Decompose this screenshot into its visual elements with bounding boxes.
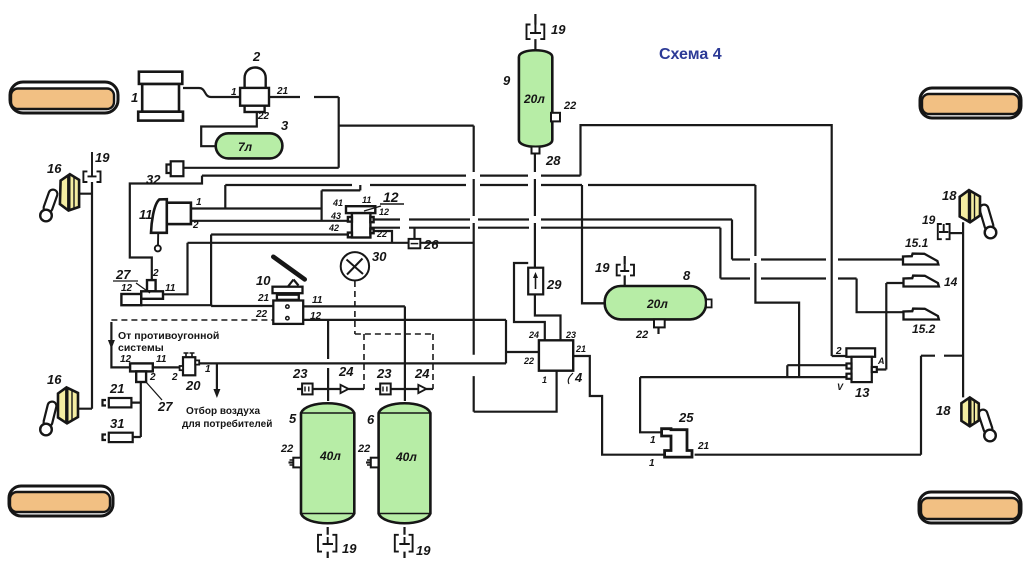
- svg-text:28: 28: [545, 153, 561, 168]
- svg-text:22: 22: [376, 229, 387, 239]
- svg-text:Отбор воздуха: Отбор воздуха: [186, 405, 261, 417]
- wire supply main: left drop to parking valve 27: [130, 176, 202, 280]
- wire valve 10 port 11 to tank 6: [303, 306, 405, 401]
- svg-text:30: 30: [372, 249, 387, 264]
- svg-text:22: 22: [257, 111, 270, 122]
- filter 23 (tank 5): [302, 384, 313, 395]
- tire bottom-left: [9, 486, 113, 516]
- svg-text:22: 22: [255, 309, 268, 320]
- svg-text:11: 11: [165, 283, 176, 294]
- svg-text:19: 19: [95, 150, 110, 165]
- svg-text:2: 2: [149, 372, 156, 383]
- svg-text:От противоугонной: От противоугонной: [118, 330, 219, 342]
- wire valve 10 port 21 to valve 12 port 42: [211, 235, 348, 307]
- svg-text:22: 22: [280, 443, 293, 455]
- wire supply main horizontal y175.6: [202, 175, 581, 177]
- coupling 21: [103, 398, 132, 407]
- wire dashed drop to check valve 24 (tank6): [432, 334, 434, 389]
- element 29: [528, 268, 543, 295]
- svg-text:22: 22: [523, 356, 534, 366]
- svg-text:24: 24: [338, 364, 354, 379]
- wire tank 5 drain stem: [327, 527, 329, 558]
- svg-text:18: 18: [942, 188, 957, 203]
- check valve 24 (tank 6): [418, 385, 426, 393]
- svg-text:42: 42: [328, 223, 339, 233]
- wire run y377.1 to valve 13 left: [640, 365, 849, 377]
- svg-text:23: 23: [565, 330, 576, 340]
- svg-text:43: 43: [330, 211, 341, 221]
- svg-text:12: 12: [379, 207, 389, 217]
- coupling 31: [103, 433, 133, 442]
- svg-text:11: 11: [312, 295, 323, 306]
- svg-text:21: 21: [697, 441, 710, 452]
- wire air takeoff arrow: [216, 363, 218, 391]
- brake chamber 16 upper: [40, 174, 79, 221]
- wire check valve row tank 6: [375, 388, 433, 390]
- svg-text:19: 19: [551, 22, 566, 37]
- wire valve 12 right port to horn 15.1: [373, 220, 903, 260]
- port 22 (tank 6): [367, 458, 379, 468]
- brake chamber 18 lower: [961, 397, 995, 441]
- drain valve 19 (tank 6): [395, 535, 413, 552]
- hand valve 10: [273, 257, 305, 324]
- svg-text:40л: 40л: [319, 449, 341, 463]
- horn 15.1: [903, 254, 938, 265]
- svg-text:1: 1: [231, 87, 237, 98]
- svg-text:19: 19: [416, 543, 431, 558]
- svg-text:19: 19: [922, 213, 936, 227]
- svg-text:Схема 4: Схема 4: [659, 46, 722, 63]
- wire dashed from indicator 30: [355, 281, 433, 334]
- wire dashed drop to check valve 24 (tank5): [363, 334, 365, 389]
- tank 3 (7L): [216, 133, 283, 158]
- svg-text:V: V: [837, 382, 844, 392]
- svg-text:25: 25: [678, 410, 694, 425]
- wire anti-theft input to valve 27: [111, 322, 130, 367]
- svg-text:7л: 7л: [238, 140, 253, 154]
- svg-text:2: 2: [152, 268, 159, 279]
- svg-text:20: 20: [185, 378, 201, 393]
- wire valve 27 stem to couplings 21 31: [131, 382, 140, 437]
- wire main vertical x473.7: [473, 126, 475, 412]
- parking valve 27 (lower, T-shape): [130, 363, 153, 382]
- svg-text:2: 2: [192, 220, 199, 231]
- wire governor 2 port 21 to main line: [269, 97, 339, 168]
- wire supply main riser and top run to valve 13: [581, 125, 847, 356]
- svg-text:29: 29: [546, 277, 562, 292]
- wire tank 6 drain stem: [403, 527, 405, 558]
- svg-text:10: 10: [256, 273, 271, 288]
- brake valve 11: [151, 199, 191, 251]
- wire tank 9 drain line 28 to element 29: [535, 153, 561, 340]
- wire element 29 left branch to valve 4 port 24: [514, 263, 545, 340]
- svg-text:системы: системы: [118, 342, 164, 354]
- wire valve 4 port 1 to main vertical: [474, 371, 557, 412]
- svg-text:23: 23: [292, 366, 308, 381]
- valve 20: [180, 353, 200, 375]
- svg-text:20л: 20л: [646, 297, 668, 311]
- wire valve 27 to valve 20: [153, 366, 181, 368]
- wire loop at valve 12 left: [322, 185, 361, 221]
- svg-text:1: 1: [131, 90, 138, 105]
- svg-text:2: 2: [252, 49, 261, 64]
- wire compressor 1 to governor 2 (with hose loop): [183, 88, 240, 97]
- svg-text:24: 24: [528, 330, 539, 340]
- wire valve 4 port 21 to regulator 25: [573, 356, 664, 455]
- svg-text:14: 14: [944, 275, 958, 289]
- compressor 1: [138, 72, 183, 121]
- horn 15.2: [904, 309, 939, 320]
- wire line y185 to node x582: [225, 184, 582, 186]
- check valve 24 (tank 5): [341, 385, 349, 393]
- gauge 26: [409, 239, 421, 248]
- svg-text:19: 19: [595, 260, 610, 275]
- filter 23 (tank 6): [380, 384, 391, 395]
- drain valve 19 (left, chamber 16): [83, 152, 100, 182]
- svg-text:12: 12: [310, 311, 322, 322]
- horn 14: [904, 276, 939, 287]
- svg-text:для потребителей: для потребителей: [182, 418, 272, 430]
- fitting 32: [167, 161, 184, 176]
- wire tank 8 fittings: [625, 256, 659, 334]
- wire valve 12 port 22 to parking valve 27 port 11: [163, 231, 474, 294]
- indicator 30: [341, 252, 369, 280]
- wire tank 5 port 22 stub: [289, 461, 294, 463]
- svg-text:40л: 40л: [395, 450, 417, 464]
- wire tank 9 top stem: [534, 14, 536, 50]
- svg-text:22: 22: [357, 443, 370, 455]
- svg-text:32: 32: [146, 172, 161, 187]
- port 22 (tank 5): [290, 458, 302, 468]
- port 22 (tank 8): [654, 319, 665, 327]
- svg-text:23: 23: [376, 366, 392, 381]
- svg-text:27: 27: [157, 399, 173, 414]
- svg-text:18: 18: [936, 403, 951, 418]
- wire check valve row tank 5: [297, 388, 364, 390]
- svg-text:11: 11: [362, 195, 371, 205]
- wire dashed anti-theft feed: [111, 319, 272, 321]
- svg-text:19: 19: [342, 541, 357, 556]
- wire horn 14 from valve 13 port A: [877, 283, 904, 370]
- svg-text:11: 11: [139, 207, 153, 222]
- regulator 25: [662, 429, 692, 457]
- wire air takeoff line from valve 20: [196, 362, 507, 364]
- svg-text:15.1: 15.1: [905, 236, 929, 250]
- tank 6 (40L): [379, 403, 431, 523]
- tank 6 line across shoulder: [379, 413, 431, 514]
- svg-text:1: 1: [205, 364, 211, 375]
- wire valve 10 port 12 to tank 5 and to valve 4: [303, 320, 539, 401]
- svg-text:4: 4: [574, 370, 583, 385]
- svg-text:13: 13: [855, 385, 870, 400]
- svg-text:16: 16: [47, 372, 62, 387]
- wire fitting 32 output: [183, 167, 338, 169]
- svg-text:27: 27: [115, 267, 131, 282]
- svg-text:15.2: 15.2: [912, 322, 936, 336]
- two-section valve 12: [346, 206, 375, 237]
- brake chamber 16 lower: [40, 387, 78, 435]
- svg-text:24: 24: [414, 366, 430, 381]
- wire valve 12 lower right port to horn 15.2: [370, 228, 904, 313]
- protection valve 4: [539, 340, 573, 370]
- arrow anti-theft: [108, 340, 115, 349]
- svg-text:5: 5: [289, 411, 297, 426]
- svg-text:41: 41: [332, 198, 343, 208]
- tire bottom-right: [919, 492, 1021, 523]
- svg-text:2: 2: [835, 346, 842, 357]
- wire tank 6 port 22 stub: [366, 461, 371, 463]
- wire regulator 25 port 21 to rear chambers 18: [695, 222, 964, 454]
- tire top-left: [10, 82, 118, 113]
- svg-text:12: 12: [121, 283, 133, 294]
- dashed control lines: [111, 281, 433, 389]
- tank 5 (40L): [301, 403, 354, 523]
- wire drop to regulator 25 top: [640, 377, 662, 432]
- wire brake valve 11 port 2 to valve 12 port 43: [191, 220, 348, 222]
- svg-text:2: 2: [171, 372, 178, 383]
- svg-text:20л: 20л: [523, 92, 545, 106]
- svg-text:21: 21: [257, 293, 270, 304]
- tank 9 (20L vertical): [519, 50, 552, 153]
- tank 5 line across shoulder: [301, 413, 354, 514]
- wire governor 2 port 22 down to tank 3: [201, 112, 257, 146]
- svg-text:11: 11: [156, 354, 167, 365]
- wire gauge 26 tap: [413, 228, 415, 239]
- tank 8 (20L horizontal): [605, 286, 712, 319]
- drain valve 19 (tank 9): [527, 25, 545, 40]
- port 22 (tank 9): [551, 113, 560, 122]
- wire brake chamber 16 circuit vertical: [78, 182, 92, 409]
- svg-text:1: 1: [649, 458, 655, 469]
- svg-text:A: A: [877, 356, 885, 366]
- svg-text:21: 21: [276, 86, 289, 97]
- svg-text:1: 1: [196, 197, 202, 208]
- valve 13: [846, 348, 876, 382]
- wire tank 8 left feed: [582, 302, 605, 304]
- svg-text:26: 26: [423, 237, 439, 252]
- drain valve 19 (tank 5): [318, 535, 336, 552]
- svg-text:21: 21: [109, 381, 124, 396]
- drain valve 19 (right, chambers 18): [938, 224, 950, 239]
- svg-text:8: 8: [683, 268, 691, 283]
- svg-text:16: 16: [47, 161, 62, 176]
- wire parking valve 27 port 12 foot line: [141, 304, 211, 307]
- wire branch y185 to valve 13 lower: [588, 185, 799, 377]
- svg-text:3: 3: [281, 118, 289, 133]
- arrow air takeoff: [213, 389, 220, 398]
- svg-text:1: 1: [650, 435, 656, 446]
- wire node 21-line branch to vertical x473.7 at y125.6: [339, 124, 474, 126]
- tire top-right: [920, 88, 1021, 118]
- svg-text:22: 22: [563, 100, 576, 112]
- parking valve 27 (upper): [121, 280, 163, 305]
- svg-text:22: 22: [635, 329, 648, 341]
- drain valve 19 (tank 8): [617, 265, 634, 276]
- wire drain valve 19 right: [950, 232, 964, 234]
- governor 2: [240, 68, 269, 113]
- svg-text:9: 9: [503, 73, 511, 88]
- svg-text:12: 12: [383, 189, 399, 205]
- svg-text:6: 6: [367, 412, 375, 427]
- svg-text:12: 12: [120, 354, 132, 365]
- svg-text:1: 1: [542, 375, 547, 385]
- wire brake valve 11 port 1 run: [191, 185, 322, 209]
- svg-text:21: 21: [575, 344, 586, 354]
- wire node x582 down to tank 8: [582, 185, 605, 303]
- svg-text:31: 31: [110, 416, 124, 431]
- brake chamber 18 upper: [960, 190, 997, 238]
